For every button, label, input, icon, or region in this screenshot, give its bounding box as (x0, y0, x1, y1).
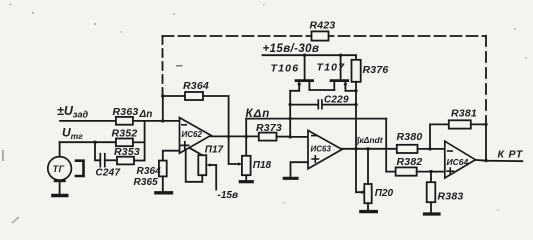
node C229 right junction (354, 103, 357, 106)
capacitor C229 (290, 100, 356, 109)
wire T106 emitter to T107 (309, 89, 334, 91)
svg-text:ИС64: ИС64 (447, 157, 469, 167)
op-amp U IC63 (308, 130, 342, 168)
wire TG to Uтг line (59, 142, 61, 156)
resistor R383 (427, 182, 436, 202)
wire IC63 noninverting input to ground (291, 162, 309, 177)
node rail T106 junction (303, 54, 306, 57)
resistor R382 (396, 167, 417, 175)
wire R364 left (163, 95, 185, 97)
wire R381 feedback branch up (430, 124, 449, 148)
wire R382 to IC64 noninverting input (417, 171, 445, 173)
wire IC62 output (211, 135, 259, 137)
ground below R364/R365 (156, 176, 172, 192)
potentiometer P18 (242, 156, 251, 175)
wire KΔn down to R382 (386, 119, 395, 172)
wire output down to P18 wiper (229, 136, 239, 164)
svg-text:∫кΔndt: ∫кΔndt (356, 135, 384, 145)
wire R373 right to IC63 inverting input (277, 136, 291, 138)
ground below P18 (240, 175, 252, 182)
P17 wiper arrow from -15V (207, 163, 217, 189)
dashed feedback box right side (485, 36, 487, 116)
wire ±Uзад input (60, 120, 116, 122)
resistor R373 (259, 133, 277, 141)
wire KΔn horizontal line to R382 branch (246, 118, 386, 120)
ground below IC63 (284, 177, 297, 180)
wire supply rail +15V/-30V (263, 54, 357, 56)
svg-text:R381: R381 (451, 108, 477, 120)
wire node dn vertical to R364 feedback (162, 96, 164, 121)
node P20 top junction (366, 147, 369, 150)
svg-text:ИС63: ИС63 (311, 145, 332, 154)
wire Uтг down to C247 (95, 142, 100, 160)
TG brush bracket (76, 161, 84, 176)
resistor R352 (116, 139, 133, 147)
wire C247 to R353 (105, 159, 117, 161)
node rail T107 junction (339, 54, 342, 57)
node C229 left junction (289, 103, 292, 106)
node R383 branch junction (429, 170, 432, 173)
resistor R376 (352, 55, 361, 149)
wire junction column right of R352/R353 (144, 121, 146, 161)
wire R383 branch (430, 172, 432, 183)
transistor T106 (290, 55, 312, 91)
resistor R380 (397, 145, 418, 153)
node IC62 output / R364 junction (227, 135, 230, 138)
resistor R363 (116, 117, 133, 125)
wire R353 right (134, 160, 145, 162)
svg-text:R364: R364 (137, 166, 162, 177)
wire R381 right to output node (471, 123, 486, 125)
svg-text:Δn: Δn (139, 109, 153, 120)
wire R364 right down to IC62 output (203, 96, 229, 136)
wire IC64 output K RT (475, 160, 522, 161)
resistor R353 (117, 157, 134, 165)
resistor R364 (feedback) (185, 92, 203, 100)
wire KΔn branch vertical (245, 119, 247, 156)
wire integrator input node vertical (289, 91, 291, 137)
potentiometer P20 (364, 149, 371, 203)
wire R363 to node Δn and IC62 inverting input (133, 120, 180, 122)
resistor R423 (in dashed line) (312, 31, 329, 40)
svg-text:Т106: Т106 (271, 63, 300, 75)
svg-text:КΔn: КΔn (246, 108, 271, 120)
ground below R383 (425, 202, 440, 214)
capacitor C247 (100, 154, 105, 167)
svg-text:R365: R365 (134, 177, 159, 188)
wire output down to P20 wiper (356, 149, 366, 194)
tachogenerator TG circle (48, 157, 72, 181)
svg-text:-15в: -15в (218, 190, 239, 201)
transistor T107 (331, 55, 356, 91)
svg-text:R380: R380 (397, 131, 423, 143)
svg-text:R373: R373 (256, 122, 282, 134)
svg-text:К РТ: К РТ (498, 149, 524, 161)
svg-text:C247: C247 (96, 168, 121, 179)
node H-line / integrator input junction (289, 117, 292, 120)
svg-text:ИС62: ИС62 (182, 130, 203, 139)
svg-text:П20: П20 (375, 188, 394, 199)
node KΔn junction (245, 135, 248, 138)
stray mark above R364 (176, 65, 183, 67)
wire right border solid to output (485, 116, 487, 161)
ground below P20 (361, 203, 376, 211)
node IC63 inverting input junction (289, 135, 292, 138)
svg-text:R376: R376 (363, 64, 389, 76)
node IC63 output / R376 junction (354, 147, 357, 150)
wire IC62 noninverting input (163, 151, 180, 161)
node T107/R376 junction (354, 89, 357, 92)
svg-text:R363: R363 (113, 106, 139, 118)
node Uтг/C247 junction (93, 141, 96, 144)
P18 wiper arrowhead (238, 162, 242, 166)
resistor R364/R365 to ground (159, 161, 167, 177)
potentiometer P17 (186, 148, 207, 182)
svg-text:R364: R364 (183, 80, 209, 92)
svg-text:R352: R352 (112, 128, 138, 140)
svg-text:П18: П18 (253, 160, 272, 171)
svg-text:R353: R353 (114, 146, 140, 158)
dashed feedback box top side (163, 35, 487, 37)
wire R380 to IC64 inverting input (418, 148, 445, 150)
node R381 right junction (484, 123, 487, 126)
op-amp U IC64 (445, 141, 476, 178)
svg-text:R383: R383 (438, 191, 464, 203)
node R364 feedback left junction (161, 94, 164, 97)
wire Uтг input (60, 141, 116, 143)
node IC64 output junction (484, 159, 487, 162)
svg-text:Т107: Т107 (317, 62, 346, 74)
wire R352 right (133, 141, 145, 143)
svg-text:ТГ: ТГ (53, 164, 65, 174)
svg-text:С229: С229 (324, 95, 349, 106)
svg-text:+15в/-30в: +15в/-30в (263, 43, 320, 55)
node R381 branch junction (428, 147, 431, 150)
node Δn junction (161, 119, 164, 122)
resistor R381 (449, 120, 471, 128)
wire IC63 output (342, 148, 397, 150)
dashed feedback box left side (162, 36, 164, 95)
wire into IC63 inverting input (290, 136, 308, 138)
ground below TG (53, 180, 67, 195)
op-amp U IC62 (180, 118, 212, 154)
svg-text:R382: R382 (397, 156, 423, 168)
svg-text:R423: R423 (310, 20, 336, 32)
svg-text:П17: П17 (205, 145, 224, 156)
